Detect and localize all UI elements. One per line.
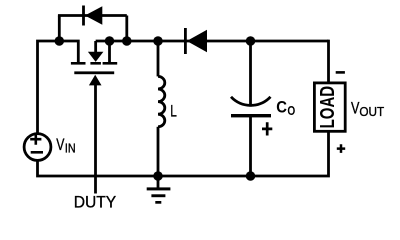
- left contact bar: [71, 62, 86, 65]
- svg-text:DUTY: DUTY: [74, 192, 116, 211]
- load box: [314, 83, 345, 131]
- wire: inductor top lead: [157, 41, 160, 76]
- curved plate: [231, 97, 271, 106]
- svg-text:IN: IN: [65, 141, 76, 156]
- capacitor C_O: [231, 97, 272, 136]
- wire: MOSFET right terminal drop: [108, 41, 111, 63]
- right contact bar: [103, 62, 118, 65]
- svg-text:V: V: [351, 100, 359, 118]
- minus sign (output top): [336, 71, 345, 74]
- wire: diode loop top horizontal: [58, 14, 127, 17]
- gate drive arrowhead (up): [89, 75, 102, 86]
- plus sign: [262, 122, 272, 135]
- wire: MOSFET body arrow jog: [94, 41, 97, 52]
- wire: top rail right segment: [96, 40, 329, 43]
- wire: ground stub: [157, 176, 160, 188]
- svg-text:V: V: [56, 136, 64, 154]
- gate bar: [74, 71, 114, 74]
- wire: gate drive line DUTY: [94, 85, 97, 194]
- wire: capacitor top lead: [249, 41, 252, 107]
- wire: capacitor bottom lead: [249, 116, 252, 176]
- ground: [147, 187, 171, 203]
- svg-text:C: C: [276, 98, 287, 117]
- straight plate: [231, 114, 271, 117]
- node: capacitor top junction: [246, 36, 256, 46]
- middle contact bar: [90, 62, 101, 65]
- diode D1 (catch diode over switch): [82, 6, 102, 26]
- node: capacitor bottom junction: [246, 171, 256, 181]
- label V_OUT: [351, 100, 384, 119]
- diode D2 (series output diode): [184, 28, 207, 54]
- node: inductor/ground junction: [153, 171, 163, 181]
- body diode arrow (down): [88, 52, 104, 62]
- svg-text:LOAD: LOAD: [317, 86, 339, 129]
- wire: diode loop right riser: [125, 16, 128, 42]
- label C_O: [276, 98, 295, 118]
- node: MOSFET right terminal junction: [105, 36, 115, 46]
- wire: inductor bottom lead: [157, 127, 160, 176]
- label V_IN: [56, 136, 76, 156]
- svg-text:OUT: OUT: [359, 104, 384, 119]
- node dots: [55, 36, 256, 181]
- node: switch/inductor junction: [153, 36, 163, 46]
- wire: bottom rail: [38, 132, 329, 177]
- wire: load top lead: [327, 40, 330, 83]
- node: diode-loop right junction: [122, 36, 132, 46]
- inductor L: [158, 76, 165, 126]
- wire: V_IN top lead + top rail left segment: [38, 41, 79, 133]
- wire: diode loop left riser: [58, 16, 61, 42]
- node: rail/diode-loop left junction: [55, 36, 65, 46]
- svg-text:O: O: [287, 103, 295, 118]
- MOSFET M1 (switch): [71, 52, 117, 86]
- plus sign (output bottom): [337, 144, 345, 153]
- voltage source V_IN: [24, 134, 51, 161]
- svg-text:L: L: [170, 103, 177, 121]
